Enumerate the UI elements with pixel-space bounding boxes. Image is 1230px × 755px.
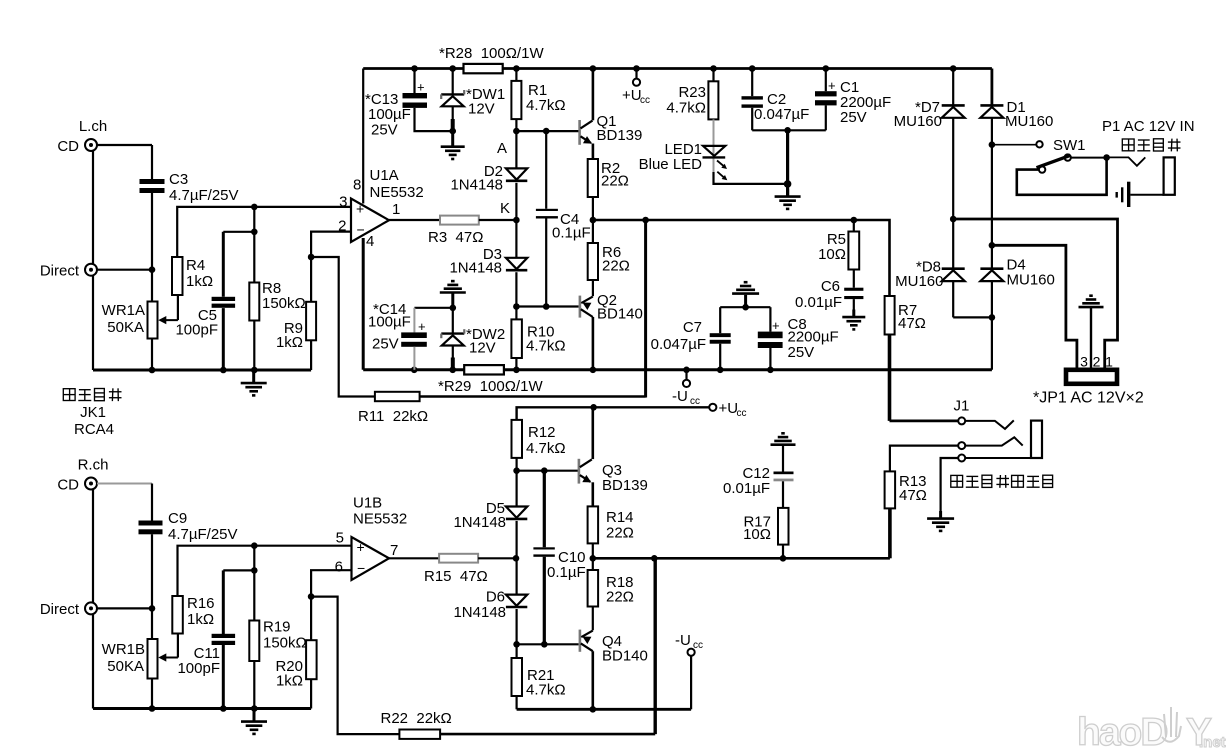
resistor R7 47R <box>885 296 926 335</box>
svg-text:R14: R14 <box>606 509 634 526</box>
resistor R14 22R <box>588 506 634 543</box>
ground above C7 (inverted) <box>732 282 759 307</box>
svg-text:1N4148: 1N4148 <box>453 514 506 531</box>
svg-text:4.7kΩ: 4.7kΩ <box>526 97 566 114</box>
wire output node K rail <box>592 217 889 296</box>
svg-text:L.ch: L.ch <box>79 118 107 135</box>
svg-text:50KA: 50KA <box>107 658 144 675</box>
wire C3 bottom to WR1A <box>149 193 156 302</box>
svg-text:BD139: BD139 <box>602 477 648 494</box>
svg-text:8: 8 <box>353 177 361 194</box>
resistor R20 1k <box>275 597 316 709</box>
svg-text:+: + <box>417 80 425 95</box>
capacitor C2 0.047uF <box>742 69 810 131</box>
svg-text:R4: R4 <box>186 257 205 274</box>
svg-text:MU160: MU160 <box>894 113 942 130</box>
resistor R10 4.7k <box>511 319 565 369</box>
svg-text:cc: cc <box>693 640 703 651</box>
svg-text:D6: D6 <box>486 589 505 606</box>
svg-text:10Ω: 10Ω <box>818 246 846 263</box>
svg-text:1: 1 <box>1105 354 1113 370</box>
resistor R22 22k <box>381 710 452 739</box>
resistor R6 22R <box>588 220 630 280</box>
wire input ground rail R <box>93 705 311 712</box>
svg-text:100µF: 100µF <box>368 314 411 331</box>
svg-text:+: + <box>828 78 836 93</box>
wire node A to Q1 base <box>516 128 578 135</box>
svg-text:4.7µF/25V: 4.7µF/25V <box>168 526 238 543</box>
svg-text:Direct: Direct <box>40 263 80 280</box>
resistor R29 100R/1W <box>438 365 543 395</box>
wire jack ground line R <box>92 490 94 709</box>
wire Direct to node <box>97 269 152 271</box>
wire R6 to Q2 emitter <box>592 280 594 296</box>
capacitor C14 100uF <box>368 301 427 370</box>
wire Q1 emitter to R2 <box>592 144 595 160</box>
wire Q2 collector to -rail <box>592 317 595 370</box>
wire wiper to R4 <box>177 295 179 320</box>
resistor R17 10R <box>743 508 788 558</box>
wire Q3 collector <box>591 407 594 459</box>
wire power mid rail <box>950 216 1118 371</box>
resistor R3 47R <box>428 216 483 246</box>
svg-text:+U: +U <box>622 87 642 104</box>
svg-text:C9: C9 <box>168 510 187 527</box>
svg-text:C7: C7 <box>683 319 702 336</box>
diode D1 MU160 <box>980 69 1053 131</box>
wire C11 bottom <box>222 645 225 709</box>
svg-text:*JP1 AC 12V×2: *JP1 AC 12V×2 <box>1033 390 1144 407</box>
ground power <box>775 189 801 209</box>
svg-text:cc: cc <box>690 396 700 407</box>
svg-text:BD140: BD140 <box>597 306 643 323</box>
svg-text:U1B: U1B <box>353 495 382 512</box>
wire R23 to LED (gray) <box>713 119 715 172</box>
ground P1 (sideways) <box>1117 182 1164 207</box>
svg-text:K: K <box>500 200 510 217</box>
wire Q4 base <box>517 641 579 648</box>
svg-text:+: + <box>772 318 780 333</box>
wire +Ucc feed stage2 <box>517 404 710 420</box>
diode D5 1N4148 <box>453 471 527 531</box>
svg-text:BD140: BD140 <box>602 648 648 665</box>
wire leg A bottom <box>953 281 992 317</box>
wire wiper to R16 <box>177 634 179 658</box>
svg-text:+: + <box>357 539 365 555</box>
svg-text:R3 47Ω: R3 47Ω <box>428 229 483 246</box>
svg-text:-U: -U <box>672 388 688 405</box>
wire +Ucc top rail <box>363 65 992 72</box>
wire Q2 base <box>516 303 578 310</box>
svg-text:4.7kΩ: 4.7kΩ <box>526 682 566 699</box>
svg-text:150kΩ: 150kΩ <box>263 635 307 652</box>
resistor R12 4.7k <box>512 420 566 458</box>
wire CD to C3 <box>97 144 152 146</box>
ground JP1 pin2 (inverted) <box>1079 296 1104 371</box>
wire jack tip from R7 <box>890 419 959 422</box>
svg-text:4: 4 <box>366 233 374 250</box>
wire U1A pin4 to -rail <box>362 238 365 370</box>
connector CD jack (L) <box>57 138 97 155</box>
svg-text:R22 22kΩ: R22 22kΩ <box>381 710 452 727</box>
resistor R1 4.7k <box>511 69 565 120</box>
svg-text:WR1B: WR1B <box>102 641 145 658</box>
svg-text:*R28 100Ω/1W: *R28 100Ω/1W <box>439 45 544 62</box>
wire R7 to headphone jack <box>888 335 892 421</box>
capacitor C4 0.1uF <box>536 131 591 306</box>
svg-text:12V: 12V <box>468 101 495 118</box>
capacitor C3 <box>140 171 239 204</box>
svg-text:1kΩ: 1kΩ <box>276 673 303 690</box>
svg-text:2200µF: 2200µF <box>788 329 839 346</box>
svg-text:12V: 12V <box>469 340 496 357</box>
svg-text:−: − <box>357 222 365 238</box>
resistor R11 22k <box>358 392 428 425</box>
switch SW1 <box>992 137 1110 195</box>
svg-text:1N4148: 1N4148 <box>450 177 503 194</box>
resistor R21 4.7k <box>512 658 566 709</box>
transistor Q4 BD140 <box>579 630 648 665</box>
zener DW2 12V <box>441 308 505 370</box>
diode D4 MU160 <box>980 257 1054 289</box>
wire Q3 emitter to R14 <box>591 482 594 506</box>
svg-text:100pF: 100pF <box>175 322 218 339</box>
ground below DW1 <box>441 131 465 159</box>
svg-text:22Ω: 22Ω <box>606 589 634 606</box>
op-amp U1A NE5532 <box>338 167 424 250</box>
wire C9 bottom to WR1B <box>149 534 156 639</box>
svg-text:150kΩ: 150kΩ <box>262 295 306 312</box>
resistor R2 22R <box>588 159 629 197</box>
capacitor C8 2200uF <box>758 307 839 370</box>
wire Q4 collector <box>591 651 594 709</box>
zener DW1 12V <box>441 69 505 132</box>
svg-text:0.01µF: 0.01µF <box>723 480 770 497</box>
svg-text:R19: R19 <box>263 619 291 636</box>
svg-text:NE5532: NE5532 <box>370 184 424 201</box>
svg-text:Direct: Direct <box>40 601 80 618</box>
wire leg B bottom <box>989 281 996 370</box>
connector JP1 AC 12Vx2 <box>1033 354 1144 407</box>
terminal -Ucc stage2 <box>675 632 703 709</box>
transistor Q3 BD139 <box>578 459 648 494</box>
capacitor C1 2200uF <box>815 69 891 131</box>
connector J1 headphone jack <box>951 398 1053 488</box>
wire to JP1 pin3 <box>992 245 1077 370</box>
resistor R19 150k <box>249 570 306 708</box>
wire C14 to DW2 <box>414 305 456 312</box>
svg-text:1N4148: 1N4148 <box>453 604 506 621</box>
text R.ch label <box>78 457 109 474</box>
connector P1 AC input <box>1102 118 1195 195</box>
node A <box>497 140 507 157</box>
svg-text:R23: R23 <box>678 84 706 101</box>
wire C2/C1 bottom <box>752 127 826 134</box>
svg-text:BD139: BD139 <box>597 127 643 144</box>
op-amp U1B NE5532 <box>335 495 408 581</box>
svg-text:−: − <box>357 560 365 576</box>
connector Direct jack (R) <box>40 601 97 618</box>
wire branch to C11/R19 <box>251 546 258 574</box>
wire jack sleeve to ground <box>941 458 959 518</box>
node K <box>500 200 520 223</box>
diode D2 1N4148 <box>450 163 527 194</box>
resistor R16 1k <box>172 595 214 634</box>
connector Direct jack (L) <box>40 263 97 280</box>
resistor R15 47R <box>424 554 488 585</box>
potentiometer WR1A 50KA <box>102 302 178 339</box>
svg-text:Blue LED: Blue LED <box>639 156 703 173</box>
ground C6 <box>842 310 865 330</box>
svg-text:4.7kΩ: 4.7kΩ <box>526 338 566 355</box>
svg-text:47Ω: 47Ω <box>899 487 927 504</box>
wire diode leg A <box>952 118 954 269</box>
svg-text:+U: +U <box>719 400 739 417</box>
wire to C11 <box>223 570 254 634</box>
svg-text:0.1µF: 0.1µF <box>547 564 586 581</box>
svg-text:25V: 25V <box>788 344 815 361</box>
svg-text:25V: 25V <box>372 336 399 353</box>
ground headphone <box>927 511 954 531</box>
svg-text:4.7kΩ: 4.7kΩ <box>666 100 706 117</box>
svg-text:R12: R12 <box>528 424 556 441</box>
svg-text:0.047µF: 0.047µF <box>651 336 706 353</box>
resistor R18 22R <box>588 558 634 606</box>
svg-text:25V: 25V <box>371 122 398 139</box>
terminal -Ucc stage1 <box>672 370 700 407</box>
svg-text:+: + <box>418 319 426 334</box>
wire C9 top <box>151 484 153 521</box>
capacitor C10 0.1uF <box>533 471 585 645</box>
svg-text:6: 6 <box>335 559 343 576</box>
capacitor C13 100uF <box>365 69 427 139</box>
svg-text:100µF: 100µF <box>368 106 411 123</box>
capacitor C5 100pF <box>175 297 235 339</box>
svg-text:47Ω: 47Ω <box>898 315 926 332</box>
wire -Ucc rail <box>363 367 992 374</box>
svg-text:SW1: SW1 <box>1053 137 1086 154</box>
svg-text:10Ω: 10Ω <box>743 526 771 543</box>
wire R12 to node <box>513 458 520 474</box>
ground above DW2 (inverted) <box>440 281 466 308</box>
svg-text:2: 2 <box>1093 354 1101 370</box>
svg-text:3: 3 <box>339 194 347 211</box>
svg-text:MU160: MU160 <box>1005 113 1053 130</box>
svg-text:cc: cc <box>737 408 747 419</box>
svg-text:R15 47Ω: R15 47Ω <box>424 568 488 585</box>
svg-text:1kΩ: 1kΩ <box>186 273 213 290</box>
terminal +Ucc <box>622 69 650 107</box>
logo haoDIY.net <box>1077 707 1226 754</box>
svg-text:-U: -U <box>675 632 691 649</box>
wire R22 to output node <box>440 558 655 734</box>
svg-text:22Ω: 22Ω <box>606 525 634 542</box>
wire C13 bottom <box>415 108 453 131</box>
resistor R4 1k <box>172 257 213 295</box>
svg-text:WR1A: WR1A <box>102 302 145 319</box>
svg-text:CD: CD <box>57 477 79 494</box>
wire D5 to node <box>513 521 520 562</box>
wire Direct to node R <box>97 607 152 609</box>
svg-text:50KA: 50KA <box>107 319 144 336</box>
svg-text:25V: 25V <box>840 109 867 126</box>
wire output node rail stage2 <box>593 555 890 562</box>
svg-text:J1: J1 <box>954 398 970 415</box>
wire C7/C8 top <box>720 304 770 311</box>
resistor R5 10R <box>818 220 859 270</box>
wire U1A output <box>389 219 440 221</box>
svg-text:1: 1 <box>392 201 400 218</box>
wire R4 to opamp +input <box>177 204 351 257</box>
svg-text:*R29 100Ω/1W: *R29 100Ω/1W <box>438 378 543 395</box>
svg-text:1kΩ: 1kΩ <box>187 611 214 628</box>
wire R14 to node <box>590 543 597 561</box>
svg-text:cc: cc <box>640 95 650 106</box>
capacitor C12 0.01uF <box>723 465 794 508</box>
wire bottom rail stage2 <box>517 706 692 713</box>
diode D3 1N4148 <box>449 220 527 277</box>
svg-text:C6: C6 <box>821 278 840 295</box>
wire C5 bottom <box>222 308 225 370</box>
resistor R8 150k <box>249 232 305 370</box>
svg-text:.net: .net <box>1199 734 1226 751</box>
svg-text:MU160: MU160 <box>895 273 943 290</box>
svg-text:R11 22kΩ: R11 22kΩ <box>358 408 428 425</box>
svg-text:22Ω: 22Ω <box>601 173 629 190</box>
wire LED to ground <box>714 172 792 188</box>
wire WR1A bottom <box>151 339 153 371</box>
svg-text:0.047µF: 0.047µF <box>754 106 809 123</box>
wire R18 to Q4 emitter <box>592 607 594 631</box>
wire U1A pin8 to +rail <box>362 69 364 204</box>
wire jack ground line <box>92 151 94 370</box>
wire Q1 collector to rail <box>592 69 595 121</box>
svg-text:1N4148: 1N4148 <box>449 260 502 277</box>
wire to power ground <box>786 130 789 196</box>
wire feedback to R11 <box>311 257 375 397</box>
svg-text:7: 7 <box>390 542 398 559</box>
text L.ch label <box>79 118 107 135</box>
wire branch to C5/R8 <box>251 207 258 235</box>
capacitor C11 100pF <box>177 634 235 677</box>
potentiometer WR1B 50KA <box>102 639 178 679</box>
wire input ground rail <box>93 367 311 374</box>
svg-text:1kΩ: 1kΩ <box>276 334 303 351</box>
capacitor C7 0.047uF <box>651 307 731 370</box>
svg-text:4.7kΩ: 4.7kΩ <box>526 440 566 457</box>
resistor R28 100R/1W <box>439 45 544 73</box>
transistor Q2 BD140 <box>579 292 643 323</box>
wire D3 to R10 <box>513 272 520 319</box>
diode D8 MU160 <box>895 259 965 291</box>
wire to C5 <box>223 232 254 297</box>
wire CD to C9 <box>97 483 152 485</box>
resistor R13 47R <box>885 446 959 559</box>
svg-text:MU160: MU160 <box>1007 272 1055 289</box>
svg-text:P1 AC 12V IN: P1 AC 12V IN <box>1102 118 1195 135</box>
svg-text:RCA4: RCA4 <box>74 421 114 438</box>
svg-text:NE5532: NE5532 <box>353 511 407 528</box>
text input connector JK1 RCA4 <box>63 388 121 438</box>
wire D6 to R21 <box>513 609 520 658</box>
svg-text:JK1: JK1 <box>80 404 106 421</box>
svg-text:C3: C3 <box>169 171 188 188</box>
transistor Q1 BD139 <box>578 113 642 145</box>
LED1 blue <box>639 141 728 180</box>
capacitor C6 0.01uF <box>795 270 863 317</box>
svg-text:CD: CD <box>57 138 79 155</box>
svg-text:R16: R16 <box>187 595 215 612</box>
wire U1A inverting input <box>308 232 351 261</box>
terminal +Ucc stage2 <box>709 400 746 419</box>
svg-text:haoD: haoD <box>1077 711 1167 754</box>
wire R3 to K node <box>479 219 517 221</box>
wire C3 top <box>151 145 153 179</box>
capacitor C9 <box>139 510 238 543</box>
svg-text:3: 3 <box>1080 354 1088 370</box>
wire U1B inverting input <box>308 570 352 600</box>
wire R1 to node A <box>513 119 520 168</box>
wire WR1B bottom <box>151 679 153 709</box>
ground input L <box>241 370 267 395</box>
resistor R23 4.7k <box>666 69 718 120</box>
diode D6 1N4148 <box>453 558 527 621</box>
svg-text:5: 5 <box>336 530 344 547</box>
svg-text:R.ch: R.ch <box>78 457 109 474</box>
svg-text:0.01µF: 0.01µF <box>795 294 842 311</box>
resistor R9 1k <box>276 257 316 370</box>
svg-text:0.1µF: 0.1µF <box>552 225 591 242</box>
connector CD jack (R) <box>57 477 97 494</box>
wire U1B output <box>389 557 439 559</box>
svg-text:22Ω: 22Ω <box>602 258 630 275</box>
svg-text:100pF: 100pF <box>177 660 220 677</box>
wire R2 to output node <box>590 197 597 223</box>
wire D2 to K <box>515 183 517 220</box>
ground input R <box>241 709 267 734</box>
diode D7 MU160 <box>894 69 965 131</box>
wire diode leg B <box>989 118 996 269</box>
svg-text:4.7µF/25V: 4.7µF/25V <box>169 187 239 204</box>
node DW1/C13 ground junction <box>449 128 456 135</box>
wire R16 to opamp +input <box>178 542 352 596</box>
svg-text:U1A: U1A <box>370 167 399 184</box>
wire R11 to output node <box>420 220 646 398</box>
wire feedback to R22 <box>311 597 399 735</box>
wire Q3 base <box>517 467 579 474</box>
wire R15 to K node R <box>478 557 516 559</box>
svg-text:A: A <box>497 140 507 157</box>
ground above C12 (inverted) <box>771 433 796 471</box>
